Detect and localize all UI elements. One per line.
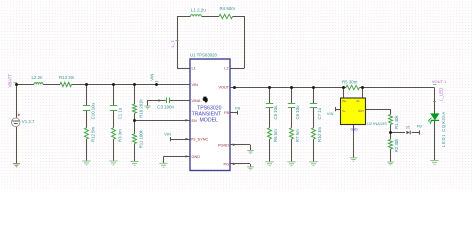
ground PG bbox=[247, 167, 254, 170]
svg-text:R11 100k: R11 100k bbox=[139, 129, 144, 148]
svg-text:C5 10u: C5 10u bbox=[273, 105, 278, 119]
resistor R3 bbox=[112, 128, 116, 139]
tick PS_SYNC stub bbox=[170, 137, 172, 141]
wire U2 GND drop bbox=[353, 125, 355, 158]
wire EN connection bbox=[134, 120, 190, 122]
resistor R4 bbox=[219, 14, 233, 18]
resistor R5 bbox=[346, 85, 360, 89]
inductor L2 bbox=[34, 83, 43, 85]
svg-text:FB: FB bbox=[417, 124, 422, 129]
wire LED to ground bbox=[434, 120, 436, 160]
junction VIN alias bbox=[155, 83, 158, 86]
svg-text:EN: EN bbox=[192, 119, 198, 123]
svg-text:L2: L2 bbox=[224, 67, 228, 71]
wire branch C6 bbox=[291, 88, 293, 162]
wire V1 to ground bbox=[16, 127, 18, 164]
capacitor C6 bbox=[288, 104, 295, 108]
svg-text:L_LED: L_LED bbox=[439, 88, 444, 101]
svg-text:GND: GND bbox=[351, 128, 359, 132]
ground GND pin bbox=[159, 163, 167, 167]
svg-text:R4 50m: R4 50m bbox=[220, 6, 236, 11]
svg-text:L2 2n: L2 2n bbox=[32, 75, 44, 80]
svg-text:C3 100n: C3 100n bbox=[157, 105, 174, 110]
wire diode to FB bbox=[412, 132, 420, 134]
ground R11 branch bbox=[130, 162, 138, 166]
svg-text:R10 3m: R10 3m bbox=[317, 127, 322, 142]
resistor R11 bbox=[133, 134, 137, 144]
svg-text:U1 TPS63020: U1 TPS63020 bbox=[190, 53, 218, 58]
junction EN divider node bbox=[133, 119, 136, 122]
pin arrow GND bbox=[186, 155, 189, 158]
tick FB net bbox=[419, 130, 421, 134]
wire branch C5 bbox=[269, 88, 271, 162]
resistor R13 bbox=[60, 82, 72, 86]
wire U2 IN+ stub bbox=[343, 88, 345, 99]
svg-text:R3 3m: R3 3m bbox=[118, 129, 123, 142]
pin arrow PS_SYNC bbox=[186, 138, 189, 141]
junction C10 branch bbox=[85, 83, 88, 86]
svg-text:L_1: L_1 bbox=[170, 40, 175, 48]
svg-text:IN+: IN+ bbox=[342, 99, 347, 103]
resistor R2 bbox=[389, 139, 393, 149]
wire top loop left vertical bbox=[177, 16, 179, 68]
svg-text:R1 40k: R1 40k bbox=[394, 115, 399, 129]
wire FB pin stub bbox=[230, 112, 238, 114]
resistor R10 bbox=[133, 104, 137, 113]
tick U2 V+ stub bbox=[335, 107, 337, 111]
resistor R12 bbox=[85, 128, 89, 139]
ground U2 GND bbox=[350, 158, 358, 161]
LED LED1 bbox=[428, 114, 439, 125]
svg-text:VIN: VIN bbox=[327, 111, 334, 116]
capacitor C3 bbox=[167, 98, 170, 104]
junction VOUT pin bbox=[233, 86, 236, 89]
tick L_LED bbox=[433, 101, 436, 103]
svg-text:V1 2.7: V1 2.7 bbox=[22, 119, 35, 124]
svg-text:V+: V+ bbox=[342, 109, 346, 113]
junction VBATT node bbox=[15, 83, 18, 86]
svg-text:L1: L1 bbox=[192, 67, 196, 71]
pin arrow VINA bbox=[159, 99, 162, 102]
wire PS_SYNC stub bbox=[170, 139, 190, 141]
wire top loop horizontal bbox=[177, 16, 245, 18]
junction R5 left IN+ bbox=[342, 86, 345, 89]
wire from L2 pin bbox=[230, 68, 245, 70]
capacitor C1 bbox=[110, 106, 117, 111]
svg-text:GND: GND bbox=[192, 155, 201, 159]
svg-text:L1 2.2u: L1 2.2u bbox=[191, 7, 206, 12]
svg-text:MODEL: MODEL bbox=[199, 117, 218, 123]
svg-text:U2 INA193: U2 INA193 bbox=[367, 121, 387, 126]
wire PG pin bbox=[230, 163, 250, 165]
svg-text:VOUT: VOUT bbox=[218, 85, 229, 89]
pin arrow PGND bbox=[233, 143, 236, 146]
junction R5 right IN- bbox=[361, 86, 364, 89]
ground PGND bbox=[247, 151, 254, 154]
wire main input bus bbox=[16, 84, 190, 86]
svg-text:IN-: IN- bbox=[357, 99, 361, 103]
resistor R1 bbox=[389, 115, 393, 125]
svg-text:C7 1u: C7 1u bbox=[317, 107, 322, 119]
svg-text:C6 10u: C6 10u bbox=[295, 105, 300, 119]
svg-text:PGND: PGND bbox=[218, 143, 229, 147]
tick VOUT 1 bbox=[433, 84, 436, 86]
tick L_1 bbox=[175, 40, 178, 42]
wire LED drop bbox=[434, 88, 436, 115]
wire U2 IN- stub bbox=[362, 88, 364, 99]
junction R10 branch bbox=[133, 83, 136, 86]
wire U2 V+ stub bbox=[335, 109, 341, 111]
tick FB pin stub bbox=[237, 111, 239, 115]
ground C1 branch bbox=[109, 161, 117, 165]
pin arrow EN bbox=[186, 119, 189, 122]
svg-text:R12 5m: R12 5m bbox=[91, 127, 96, 142]
svg-text:R6 5m: R6 5m bbox=[273, 129, 278, 142]
svg-text:D5: D5 bbox=[406, 126, 410, 130]
wire branch C1 bbox=[113, 85, 115, 162]
ground C10 branch bbox=[82, 161, 90, 165]
wire PGND drop bbox=[250, 145, 252, 151]
wire VBATT source drop bbox=[16, 85, 18, 119]
tick VIN on bus bbox=[155, 81, 158, 83]
ground C6 branch bbox=[287, 162, 295, 166]
wire PG drop bbox=[250, 164, 252, 167]
ground LED bbox=[430, 161, 438, 165]
pin arrow PG bbox=[233, 163, 236, 166]
svg-text:VBATT: VBATT bbox=[8, 74, 13, 88]
svg-text:PG: PG bbox=[224, 162, 230, 166]
wire U2 OUT bbox=[366, 109, 391, 111]
svg-text:R5 30m: R5 30m bbox=[342, 80, 358, 85]
resistor R6 bbox=[268, 128, 272, 139]
ground C5 branch bbox=[265, 162, 273, 166]
svg-text:R2 30k: R2 30k bbox=[394, 138, 399, 152]
svg-text:FB: FB bbox=[235, 105, 240, 110]
wire down to R1 bbox=[390, 109, 392, 115]
wire R1 to node bbox=[390, 125, 392, 133]
resistor R14 bbox=[312, 128, 316, 139]
junction C5 branch bbox=[268, 86, 271, 89]
junction C7 branch bbox=[312, 86, 315, 89]
wire GND pin bbox=[164, 156, 191, 158]
junction FB divider node bbox=[389, 131, 392, 134]
svg-text:LED1 CQX35A: LED1 CQX35A bbox=[441, 111, 446, 147]
ground 0 for V1 bbox=[13, 164, 20, 167]
resistor R7 bbox=[290, 128, 294, 139]
tick VBATT bbox=[14, 82, 17, 84]
diode D5 bbox=[406, 131, 410, 135]
svg-text:R7 5m: R7 5m bbox=[295, 129, 300, 142]
svg-text:VOUT 1: VOUT 1 bbox=[432, 79, 447, 84]
TI logo bbox=[202, 97, 207, 103]
wire output bus bbox=[230, 87, 435, 89]
junction C1 branch bbox=[112, 83, 115, 86]
svg-text:C10 10u: C10 10u bbox=[91, 102, 96, 119]
svg-text:R10 261k: R10 261k bbox=[139, 98, 144, 117]
ground for C3 bbox=[144, 106, 150, 109]
svg-text:PS_SYNC: PS_SYNC bbox=[191, 137, 209, 141]
capacitor C7 bbox=[310, 104, 317, 108]
shunt monitor U2 INA193 bbox=[341, 98, 366, 125]
wire to L1 pin bbox=[177, 68, 190, 70]
svg-text:VINA: VINA bbox=[192, 99, 201, 103]
capacitor C10 bbox=[83, 106, 90, 111]
voltage source V1 bbox=[11, 114, 20, 127]
wire VINA connection bbox=[147, 100, 190, 102]
svg-text:VIN: VIN bbox=[164, 131, 171, 136]
inductor L1 bbox=[191, 15, 202, 17]
svg-text:FB: FB bbox=[224, 111, 229, 115]
ground R2 bbox=[387, 162, 394, 165]
wire branch C10 bbox=[86, 85, 88, 162]
capacitor C5 bbox=[266, 104, 273, 108]
wire node to R2 bbox=[390, 133, 392, 140]
svg-text:VIN: VIN bbox=[192, 83, 199, 87]
svg-text:R13 3m: R13 3m bbox=[59, 75, 75, 80]
svg-text:C1 1u: C1 1u bbox=[118, 107, 123, 119]
wire GND pin drop bbox=[163, 156, 165, 163]
wire branch C7 bbox=[313, 88, 315, 162]
wire node to diode bbox=[391, 132, 406, 134]
wire branch R10 R11 bbox=[134, 85, 136, 162]
wire top loop right vertical bbox=[244, 16, 246, 68]
wire blanking bbox=[12, 13, 394, 150]
svg-text:OUT: OUT bbox=[358, 109, 364, 113]
IC U1 TPS63020 body bbox=[190, 59, 230, 171]
wire R2 to ground bbox=[390, 149, 392, 162]
junction C6 branch bbox=[290, 86, 293, 89]
svg-text:VIN: VIN bbox=[149, 74, 154, 81]
wire PGND pin bbox=[230, 144, 250, 146]
ground C7 branch bbox=[309, 162, 317, 166]
wire C3 ground stub bbox=[147, 101, 149, 106]
